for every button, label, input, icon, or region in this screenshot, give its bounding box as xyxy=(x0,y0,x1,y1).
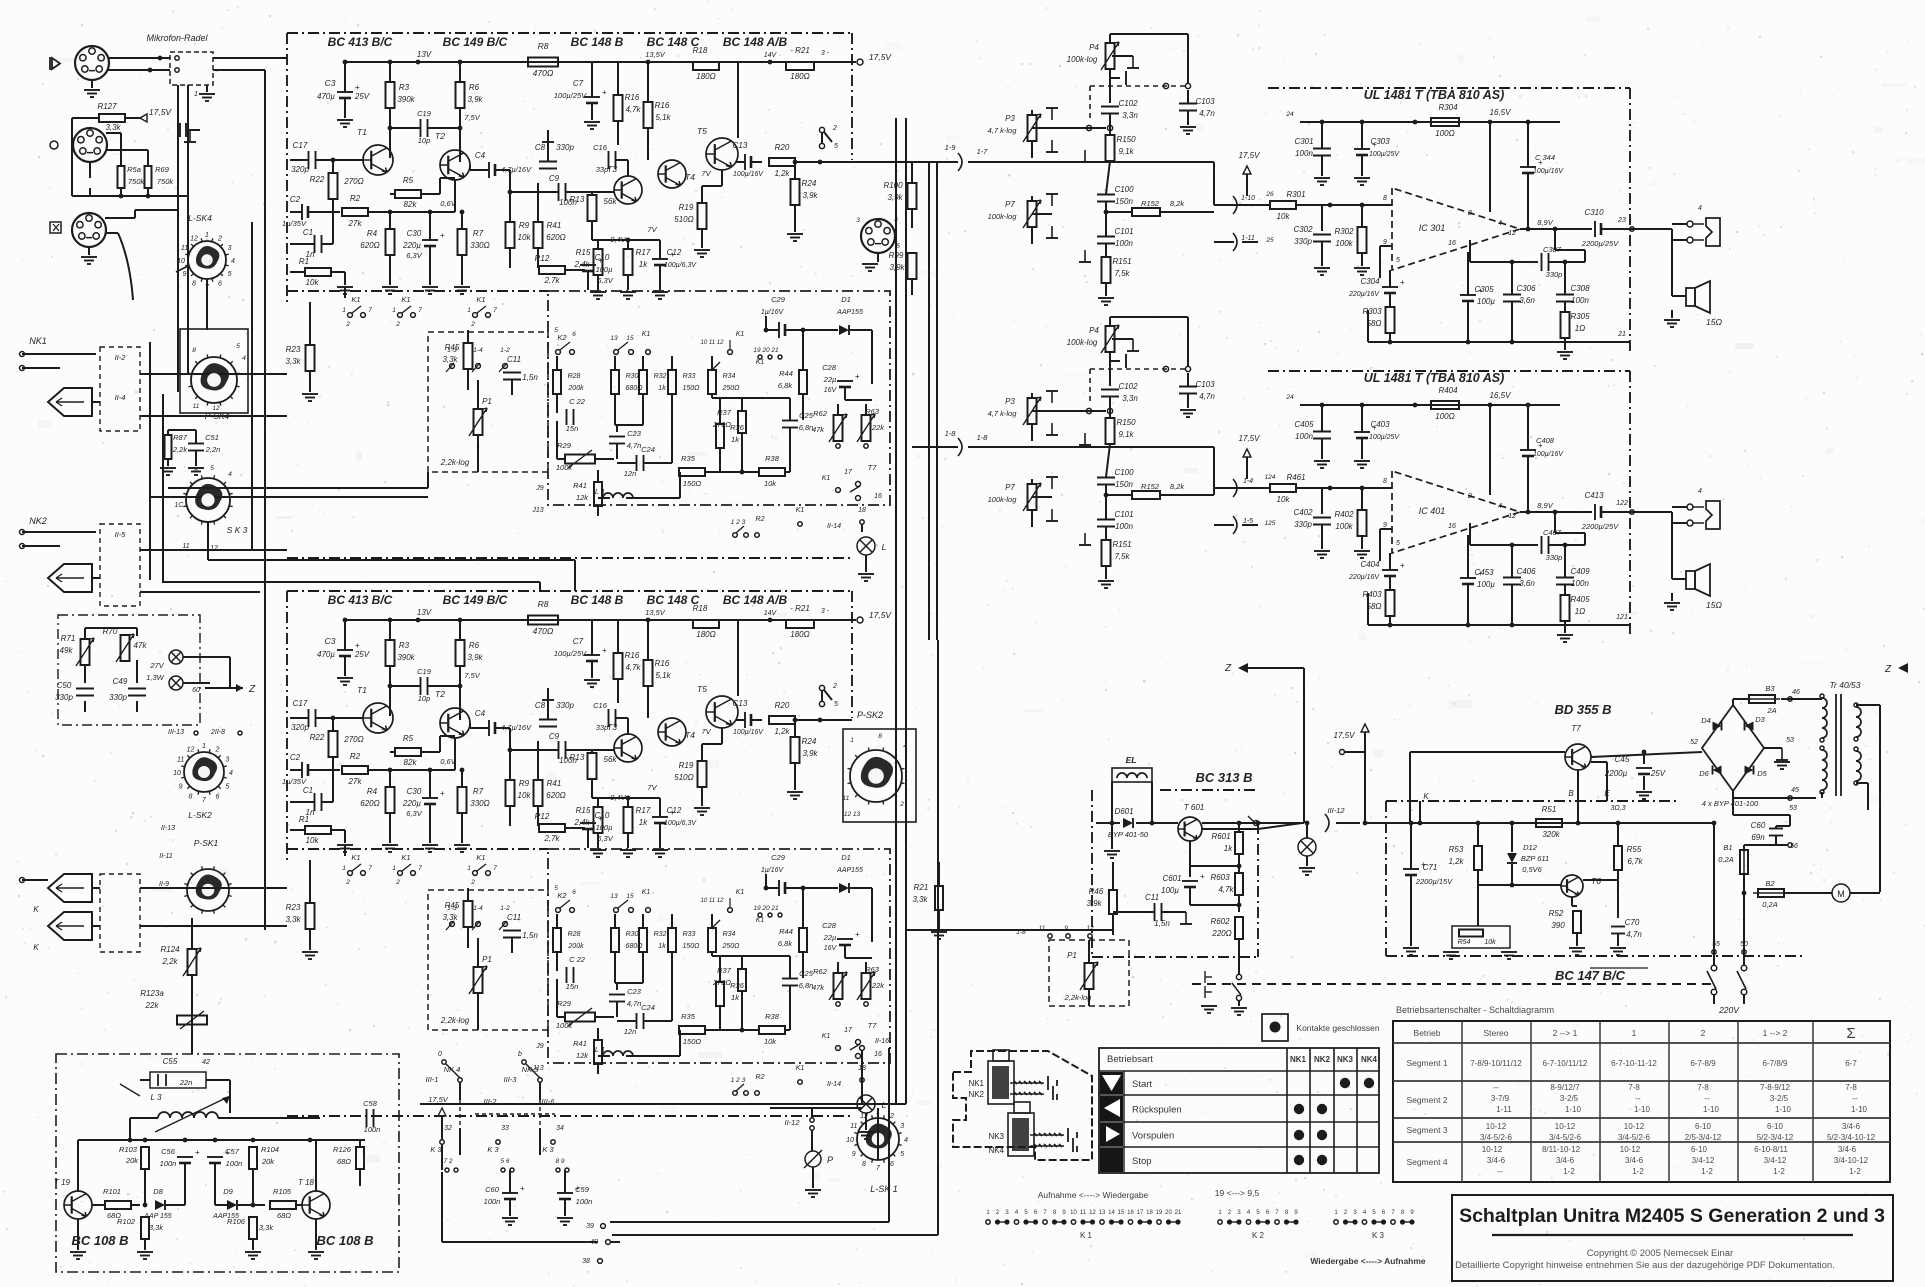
svg-text:180Ω: 180Ω xyxy=(696,72,715,81)
svg-text:17,5V: 17,5V xyxy=(149,107,173,117)
svg-text:R151: R151 xyxy=(1112,257,1131,266)
svg-text:R34: R34 xyxy=(723,373,736,380)
svg-text:330p: 330p xyxy=(1294,237,1312,246)
svg-text:8: 8 xyxy=(862,1161,866,1168)
svg-text:--: -- xyxy=(1704,1094,1710,1103)
svg-text:4: 4 xyxy=(1698,205,1702,212)
svg-text:3 -: 3 - xyxy=(821,608,830,615)
svg-text:BYP 401-50: BYP 401-50 xyxy=(1108,830,1149,839)
svg-text:6-7-10-11-12: 6-7-10-11-12 xyxy=(1611,1059,1657,1068)
svg-text:47k: 47k xyxy=(812,983,825,992)
svg-text:C9: C9 xyxy=(549,174,560,183)
svg-text:6-7: 6-7 xyxy=(1845,1059,1857,1068)
svg-text:6: 6 xyxy=(890,1161,894,1168)
svg-text:470µ: 470µ xyxy=(317,650,335,659)
svg-text:49k: 49k xyxy=(60,646,74,655)
svg-text:150Ω: 150Ω xyxy=(682,943,700,950)
svg-text:R4: R4 xyxy=(367,787,378,796)
svg-text:R18: R18 xyxy=(693,604,708,613)
svg-text:C9: C9 xyxy=(549,732,560,741)
svg-text:R16: R16 xyxy=(625,651,640,660)
svg-text:T7: T7 xyxy=(868,463,878,472)
svg-text:7,5V: 7,5V xyxy=(464,671,480,680)
svg-text:100n: 100n xyxy=(160,1159,177,1168)
svg-text:150n: 150n xyxy=(1115,480,1133,489)
svg-text:6,8k: 6,8k xyxy=(778,939,793,948)
svg-text:R62: R62 xyxy=(813,409,828,418)
svg-text:K2: K2 xyxy=(557,333,567,342)
svg-text:10k: 10k xyxy=(306,836,320,845)
svg-text:R22: R22 xyxy=(310,175,325,184)
svg-text:C29: C29 xyxy=(771,295,786,304)
svg-text:P1: P1 xyxy=(1067,951,1077,960)
svg-text:1C: 1C xyxy=(175,502,185,509)
svg-text:100µ/6,3V: 100µ/6,3V xyxy=(664,262,697,269)
svg-text:12: 12 xyxy=(860,1113,868,1120)
svg-text:C57: C57 xyxy=(225,1147,240,1156)
svg-text:60: 60 xyxy=(192,687,200,694)
svg-text:330p: 330p xyxy=(556,143,574,152)
svg-text:NK 5: NK 5 xyxy=(522,1065,540,1074)
svg-text:7V: 7V xyxy=(701,727,711,736)
svg-text:320p: 320p xyxy=(291,723,309,732)
svg-text:10: 10 xyxy=(846,1137,854,1144)
svg-text:100Ω: 100Ω xyxy=(1435,412,1454,421)
svg-text:1k: 1k xyxy=(1224,844,1233,853)
svg-text:II-12: II-12 xyxy=(784,1118,800,1127)
svg-text:K1: K1 xyxy=(736,889,745,896)
svg-text:15: 15 xyxy=(626,893,634,900)
svg-text:D5: D5 xyxy=(1757,769,1767,778)
svg-text:K1: K1 xyxy=(476,295,485,304)
svg-text:1-8: 1-8 xyxy=(945,429,957,438)
svg-text:16: 16 xyxy=(874,1051,882,1058)
svg-text:3/4-6: 3/4-6 xyxy=(1842,1122,1861,1131)
svg-text:5: 5 xyxy=(1396,540,1400,547)
svg-text:R461: R461 xyxy=(1286,473,1305,482)
svg-text:D8: D8 xyxy=(153,1187,163,1196)
svg-text:1,5n: 1,5n xyxy=(522,373,538,382)
svg-text:D4: D4 xyxy=(1701,716,1711,725)
svg-text:Kontakte geschlossen: Kontakte geschlossen xyxy=(1296,1023,1379,1033)
svg-text:R124: R124 xyxy=(160,945,180,954)
svg-text:T 19: T 19 xyxy=(54,1178,71,1187)
svg-text:T7: T7 xyxy=(1571,724,1581,733)
svg-text:6-7/8/9: 6-7/8/9 xyxy=(1763,1059,1788,1068)
svg-text:1: 1 xyxy=(342,865,346,872)
svg-text:C310: C310 xyxy=(1584,208,1604,217)
svg-text:Z: Z xyxy=(1224,663,1232,674)
svg-text:R2: R2 xyxy=(350,194,361,203)
svg-text:Segment 1: Segment 1 xyxy=(1406,1058,1447,1068)
svg-text:3/4-12: 3/4-12 xyxy=(1764,1156,1787,1165)
svg-text:C 22: C 22 xyxy=(569,397,586,406)
svg-text:0,2A: 0,2A xyxy=(1718,855,1733,864)
svg-text:1µ/16V: 1µ/16V xyxy=(761,309,785,316)
svg-text:K1: K1 xyxy=(401,295,410,304)
svg-text:IC 401: IC 401 xyxy=(1419,506,1446,516)
svg-text:22k: 22k xyxy=(871,423,885,432)
svg-text:6,3V: 6,3V xyxy=(597,834,613,843)
svg-text:12n: 12n xyxy=(624,469,637,478)
svg-text:R8: R8 xyxy=(538,599,549,609)
svg-text:1µ/35V: 1µ/35V xyxy=(282,777,307,786)
svg-text:3,3k: 3,3k xyxy=(912,895,928,904)
svg-text:13V: 13V xyxy=(417,608,432,617)
svg-text:8: 8 xyxy=(192,281,196,288)
svg-text:10 11 12: 10 11 12 xyxy=(701,898,725,904)
svg-text:5: 5 xyxy=(554,327,558,334)
svg-text:390k: 390k xyxy=(397,653,415,662)
svg-text:100µ/25V: 100µ/25V xyxy=(554,649,587,658)
svg-text:L: L xyxy=(882,542,887,552)
svg-text:NK4: NK4 xyxy=(988,1146,1004,1155)
svg-text:100µ: 100µ xyxy=(596,265,613,274)
svg-text:69n: 69n xyxy=(1751,833,1765,842)
svg-text:R5a: R5a xyxy=(127,165,141,174)
svg-text:17,5V: 17,5V xyxy=(869,610,893,620)
svg-text:10 11 12: 10 11 12 xyxy=(701,340,725,346)
svg-text:17,5V: 17,5V xyxy=(1239,434,1261,443)
svg-text:7,5k: 7,5k xyxy=(1114,269,1130,278)
svg-text:100µ/25V: 100µ/25V xyxy=(554,91,587,100)
svg-text:8/11-10-12: 8/11-10-12 xyxy=(1542,1145,1581,1154)
svg-text:R103: R103 xyxy=(119,1145,138,1154)
svg-text:13: 13 xyxy=(610,335,618,342)
svg-text:15: 15 xyxy=(626,335,634,342)
svg-text:200k: 200k xyxy=(567,943,584,950)
svg-text:BC 148 B: BC 148 B xyxy=(571,593,624,607)
svg-text:1: 1 xyxy=(202,743,206,750)
svg-text:6,3V: 6,3V xyxy=(597,276,613,285)
svg-text:12: 12 xyxy=(1089,1210,1096,1216)
svg-text:R100: R100 xyxy=(883,181,903,190)
svg-text:620Ω: 620Ω xyxy=(360,799,379,808)
svg-text:680Ω: 680Ω xyxy=(625,385,643,392)
svg-text:17,5V: 17,5V xyxy=(869,52,893,62)
svg-text:16V: 16V xyxy=(824,945,838,952)
svg-text:C101: C101 xyxy=(1114,227,1133,236)
svg-text:R29: R29 xyxy=(557,441,572,450)
svg-text:R22: R22 xyxy=(310,733,325,742)
svg-text:3/4-6: 3/4-6 xyxy=(1625,1156,1644,1165)
svg-text:- R21: - R21 xyxy=(790,604,810,613)
svg-text:3/4-5/2-6: 3/4-5/2-6 xyxy=(1480,1133,1513,1142)
svg-text:P-SK4: P-SK4 xyxy=(205,411,230,421)
svg-text:R55: R55 xyxy=(1627,845,1642,854)
svg-text:K1: K1 xyxy=(351,295,360,304)
svg-text:2: 2 xyxy=(832,683,837,690)
svg-text:R33: R33 xyxy=(683,931,696,938)
svg-text:16: 16 xyxy=(874,493,882,500)
svg-text:100k: 100k xyxy=(1335,522,1353,531)
svg-text:2: 2 xyxy=(470,879,475,886)
svg-text:R16: R16 xyxy=(625,93,640,102)
svg-text:Betrieb: Betrieb xyxy=(1414,1028,1441,1038)
svg-text:12: 12 xyxy=(187,747,195,754)
svg-text:330Ω: 330Ω xyxy=(470,799,489,808)
svg-text:C8: C8 xyxy=(535,143,546,152)
svg-text:R5: R5 xyxy=(403,734,414,743)
svg-text:II-9: II-9 xyxy=(159,881,169,888)
svg-text:3,9k: 3,9k xyxy=(889,263,905,272)
svg-text:C17: C17 xyxy=(293,699,308,708)
svg-text:R46: R46 xyxy=(1089,887,1104,896)
svg-text:4,7n: 4,7n xyxy=(1626,930,1642,939)
svg-text:Aufnahme <----> Wiedergabe: Aufnahme <----> Wiedergabe xyxy=(1038,1190,1149,1200)
svg-text:III-1: III-1 xyxy=(426,1075,439,1084)
svg-text:100Ω: 100Ω xyxy=(1435,129,1454,138)
svg-text:9: 9 xyxy=(1383,522,1387,529)
svg-text:68Ω: 68Ω xyxy=(277,1211,291,1220)
svg-text:II-11: II-11 xyxy=(159,853,173,860)
svg-text:D12: D12 xyxy=(1523,843,1538,852)
svg-text:5,1k: 5,1k xyxy=(655,113,671,122)
svg-text:7V: 7V xyxy=(647,783,657,792)
svg-text:C2: C2 xyxy=(290,753,301,762)
svg-text:52: 52 xyxy=(1690,739,1698,746)
svg-text:19 20 21: 19 20 21 xyxy=(753,905,779,912)
svg-text:R32: R32 xyxy=(654,373,667,380)
svg-text:R51: R51 xyxy=(1542,805,1557,814)
svg-text:R602: R602 xyxy=(1210,917,1230,926)
svg-text:C101: C101 xyxy=(1114,510,1133,519)
svg-text:T2: T2 xyxy=(435,131,445,141)
svg-text:1Ω: 1Ω xyxy=(1575,324,1586,333)
svg-text:C24: C24 xyxy=(641,445,655,454)
svg-text:1-7: 1-7 xyxy=(977,147,989,156)
svg-text:+: + xyxy=(355,641,360,650)
svg-text:200k: 200k xyxy=(567,385,584,392)
svg-text:C 22: C 22 xyxy=(569,955,586,964)
svg-text:1: 1 xyxy=(392,307,396,314)
svg-text:C102: C102 xyxy=(1118,382,1138,391)
svg-text:8: 8 xyxy=(1383,478,1387,485)
svg-text:NK1: NK1 xyxy=(29,336,47,346)
svg-text:4,7n: 4,7n xyxy=(1199,109,1215,118)
svg-text:56k: 56k xyxy=(604,755,618,764)
svg-text:P7: P7 xyxy=(1005,483,1015,492)
svg-text:20k: 20k xyxy=(261,1157,275,1166)
svg-text:D9: D9 xyxy=(223,1187,233,1196)
svg-text:R30: R30 xyxy=(626,373,639,380)
svg-text:R17: R17 xyxy=(636,248,651,257)
svg-text:25V: 25V xyxy=(1650,769,1666,778)
svg-text:100k-log: 100k-log xyxy=(988,212,1018,221)
svg-text:8: 8 xyxy=(878,733,882,740)
svg-text:150Ω: 150Ω xyxy=(682,385,700,392)
svg-text:100µ/16V: 100µ/16V xyxy=(733,729,764,736)
svg-text:D6: D6 xyxy=(1699,769,1709,778)
svg-text:Rückspulen: Rückspulen xyxy=(1132,1105,1182,1116)
svg-text:+: + xyxy=(195,1148,200,1157)
svg-text:100µ/25V: 100µ/25V xyxy=(1369,151,1400,158)
svg-text:6: 6 xyxy=(194,467,198,474)
svg-text:C71: C71 xyxy=(1423,863,1438,872)
svg-text:L 1: L 1 xyxy=(595,1045,605,1054)
svg-text:D3: D3 xyxy=(1755,715,1765,724)
svg-text:R32: R32 xyxy=(654,931,667,938)
svg-text:R28: R28 xyxy=(568,931,581,938)
svg-text:K 3: K 3 xyxy=(430,1145,442,1154)
svg-text:NK4: NK4 xyxy=(1361,1055,1378,1064)
svg-text:1k: 1k xyxy=(731,435,740,444)
svg-text:C601: C601 xyxy=(1162,874,1181,883)
svg-text:1-3: 1-3 xyxy=(447,905,457,912)
svg-text:8: 8 xyxy=(189,793,193,800)
svg-text:1-2: 1-2 xyxy=(1773,1167,1785,1176)
svg-text:C19: C19 xyxy=(417,667,432,676)
svg-text:R62: R62 xyxy=(813,967,828,976)
svg-text:NK2: NK2 xyxy=(968,1090,984,1099)
svg-text:3,3k: 3,3k xyxy=(149,1223,164,1232)
svg-text:1-10: 1-10 xyxy=(1703,1105,1720,1114)
svg-text:5: 5 xyxy=(834,143,838,150)
svg-text:82k: 82k xyxy=(404,200,418,209)
svg-text:1-4: 1-4 xyxy=(473,905,483,912)
svg-text:+: + xyxy=(855,372,860,381)
svg-text:7 2: 7 2 xyxy=(443,1158,452,1165)
svg-text:100n: 100n xyxy=(226,1159,243,1168)
svg-text:2/5-3/4-12: 2/5-3/4-12 xyxy=(1685,1133,1722,1142)
svg-text:R102: R102 xyxy=(117,1217,136,1226)
svg-text:C406: C406 xyxy=(1516,567,1536,576)
svg-text:38: 38 xyxy=(582,1258,590,1265)
svg-text:+: + xyxy=(855,930,860,939)
svg-text:150Ω: 150Ω xyxy=(683,479,702,488)
svg-text:2: 2 xyxy=(215,747,220,754)
svg-text:R104: R104 xyxy=(261,1145,279,1154)
svg-text:3,9k: 3,9k xyxy=(802,749,818,758)
svg-text:C3: C3 xyxy=(325,636,336,646)
svg-text:R151: R151 xyxy=(1112,540,1131,549)
svg-text:10-12: 10-12 xyxy=(1624,1122,1645,1131)
svg-text:B1: B1 xyxy=(1723,843,1732,852)
svg-text:620Ω: 620Ω xyxy=(546,233,565,242)
svg-text:R13: R13 xyxy=(570,753,585,762)
svg-text:BD 355 B: BD 355 B xyxy=(1554,702,1611,717)
svg-text:8,9V: 8,9V xyxy=(1537,218,1553,227)
svg-text:15n: 15n xyxy=(566,424,579,433)
svg-text:T 18: T 18 xyxy=(298,1178,315,1187)
svg-text:R21: R21 xyxy=(914,883,929,892)
svg-text:5: 5 xyxy=(554,885,558,892)
svg-text:C405: C405 xyxy=(1294,420,1314,429)
svg-text:C28: C28 xyxy=(822,921,837,930)
svg-text:100µ/16V: 100µ/16V xyxy=(733,171,764,178)
svg-text:4: 4 xyxy=(228,471,232,478)
svg-text:+: + xyxy=(602,646,607,655)
svg-text:III-13: III-13 xyxy=(168,729,184,736)
svg-text:T7: T7 xyxy=(868,1021,878,1030)
svg-text:10p: 10p xyxy=(418,136,431,145)
svg-text:+: + xyxy=(1400,278,1405,287)
svg-text:53: 53 xyxy=(1789,805,1797,812)
svg-text:BZP 611: BZP 611 xyxy=(1521,854,1549,863)
svg-text:K1: K1 xyxy=(796,507,805,514)
svg-text:D601: D601 xyxy=(1114,807,1133,816)
svg-text:1-2: 1-2 xyxy=(1632,1167,1644,1176)
svg-text:4,7n: 4,7n xyxy=(627,441,642,450)
svg-text:10k: 10k xyxy=(1277,495,1291,504)
svg-text:10-12: 10-12 xyxy=(1555,1122,1576,1131)
svg-text:B2: B2 xyxy=(1765,879,1775,888)
svg-text:III-12: III-12 xyxy=(1327,806,1345,815)
svg-text:3/4-6: 3/4-6 xyxy=(1556,1156,1575,1165)
svg-text:24: 24 xyxy=(1285,111,1294,118)
svg-text:3: 3 xyxy=(225,757,229,764)
svg-text:25: 25 xyxy=(1265,237,1274,244)
svg-text:R9: R9 xyxy=(519,221,530,230)
svg-text:6: 6 xyxy=(218,281,222,288)
svg-text:1-10: 1-10 xyxy=(1775,1105,1792,1114)
svg-text:C103: C103 xyxy=(1195,97,1215,106)
svg-text:R2: R2 xyxy=(756,516,765,523)
svg-text:II-4: II-4 xyxy=(115,393,126,402)
svg-text:4: 4 xyxy=(1498,503,1502,510)
svg-text:100k: 100k xyxy=(556,463,574,472)
svg-text:C308: C308 xyxy=(1570,284,1590,293)
svg-text:R126: R126 xyxy=(333,1145,352,1154)
svg-text:BC 148 B: BC 148 B xyxy=(571,35,624,49)
svg-text:R127: R127 xyxy=(97,102,117,111)
svg-text:19: 19 xyxy=(1156,1210,1163,1216)
svg-text:2,2k: 2,2k xyxy=(161,957,178,966)
svg-text:82k: 82k xyxy=(404,758,418,767)
svg-text:13: 13 xyxy=(610,893,618,900)
svg-text:3Ω,3: 3Ω,3 xyxy=(1610,805,1625,812)
svg-text:R16: R16 xyxy=(655,101,670,110)
svg-text:5 6: 5 6 xyxy=(500,1158,509,1165)
svg-text:1 2 3: 1 2 3 xyxy=(731,1077,746,1084)
svg-text:12 13: 12 13 xyxy=(844,811,861,818)
svg-text:C4: C4 xyxy=(475,709,486,718)
svg-text:C403: C403 xyxy=(1370,420,1390,429)
svg-text:1,5n: 1,5n xyxy=(522,931,538,940)
svg-text:6: 6 xyxy=(572,889,576,896)
svg-text:3,6n: 3,6n xyxy=(1519,579,1535,588)
svg-text:390k: 390k xyxy=(397,95,415,104)
svg-text:7-8-9/12: 7-8-9/12 xyxy=(1760,1083,1790,1092)
svg-text:1-11: 1-11 xyxy=(1496,1105,1512,1114)
svg-text:C50: C50 xyxy=(57,681,72,690)
svg-text:P: P xyxy=(827,1155,833,1165)
svg-text:D1: D1 xyxy=(841,853,851,862)
svg-text:8,2k: 8,2k xyxy=(1170,482,1185,491)
svg-text:100µ/25V: 100µ/25V xyxy=(1369,434,1400,441)
svg-text:12k: 12k xyxy=(576,1051,589,1060)
svg-text:100n: 100n xyxy=(1115,239,1133,248)
svg-text:NK2: NK2 xyxy=(29,516,47,526)
svg-text:BC 147 B/C: BC 147 B/C xyxy=(1555,968,1626,983)
svg-text:Σ: Σ xyxy=(1846,1025,1855,1042)
svg-text:+: + xyxy=(520,1184,525,1193)
svg-text:6-10-8/11: 6-10-8/11 xyxy=(1754,1145,1788,1154)
svg-text:19 <---> 9,5: 19 <---> 9,5 xyxy=(1215,1188,1260,1198)
svg-text:1-8: 1-8 xyxy=(977,433,989,442)
svg-text:5: 5 xyxy=(225,784,229,791)
svg-text:10k: 10k xyxy=(518,233,532,242)
svg-text:--: -- xyxy=(1635,1094,1641,1103)
svg-text:1: 1 xyxy=(467,865,471,872)
svg-text:T1: T1 xyxy=(357,685,367,695)
svg-text:11: 11 xyxy=(177,757,184,764)
svg-text:R302: R302 xyxy=(1334,227,1354,236)
svg-text:1 2 3: 1 2 3 xyxy=(731,519,746,526)
svg-text:T2: T2 xyxy=(435,689,445,699)
svg-text:BC 413 B/C: BC 413 B/C xyxy=(328,35,393,49)
svg-text:II-5: II-5 xyxy=(115,530,127,539)
